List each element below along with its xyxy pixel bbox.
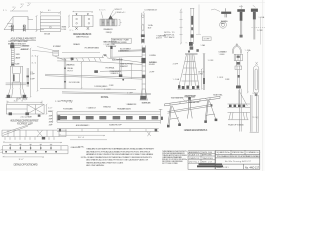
T-bolt 2 dark head [251, 9, 258, 12]
securing block studs [76, 13, 89, 15]
second member dark shank [191, 16, 193, 25]
svg-text:DRAWN R.S.: DRAWN R.S. [189, 157, 200, 160]
second bolt member [190, 8, 194, 44]
trestle top bar (perspective) [165, 96, 221, 106]
svg-text:& NUT: & NUT [156, 38, 163, 40]
center column dark main [141, 58, 145, 63]
jack collar [235, 66, 242, 69]
svg-text:APPARATUS TO BE CONSTRUCTED FR: APPARATUS TO BE CONSTRUCTED FROM STANDAR… [86, 153, 154, 156]
svg-text:GUIDE: GUIDE [15, 64, 21, 66]
vertical dim mid beam [81, 62, 83, 89]
svg-text:1 OFF REQUIRED: 1 OFF REQUIRED [94, 86, 107, 88]
left stand narrow column [11, 48, 14, 66]
svg-text:ARM REST SUPP: ARM REST SUPP [21, 48, 30, 51]
svg-text:5/8 DIA: 5/8 DIA [44, 33, 51, 36]
left stand legs [8, 88, 26, 98]
right frame verticals [250, 95, 259, 132]
bench top dimension [7, 101, 42, 104]
slot plate bottom tab [255, 93, 257, 96]
svg-text:TITLE DISABLED PERSONS TOILET: TITLE DISABLED PERSONS TOILET APPARATUS … [217, 155, 261, 158]
right stand legs [178, 54, 201, 89]
right pillar legs [228, 112, 249, 119]
right stand top knob dark [189, 42, 193, 46]
T-bolt 1 dark stem [240, 12, 243, 21]
svg-text:LOCKING BOLT: LOCKING BOLT [145, 10, 158, 12]
trapezoid inner lines [7, 24, 14, 27]
floor rail line [40, 88, 136, 91]
svg-text:3-0: 3-0 [32, 63, 37, 65]
svg-text:ADJUSTABLE ARM REST: ADJUSTABLE ARM REST [11, 38, 37, 41]
jack dimension line [247, 51, 249, 93]
foot board dark dashed band [59, 116, 158, 119]
svg-text:1 OFF: 1 OFF [225, 79, 230, 81]
svg-text:FOOTREST 1 OFF: FOOTREST 1 OFF [17, 123, 34, 125]
pedal arm vertical post [64, 59, 66, 89]
svg-text:4-6: 4-6 [32, 56, 37, 58]
title block right outer box [216, 150, 260, 169]
svg-text:9'-0": 9'-0" [19, 159, 24, 161]
svg-text:No. 44/D 217: No. 44/D 217 [245, 167, 260, 170]
locking bolt member [142, 13, 145, 44]
box for note top middle [111, 38, 131, 43]
pedal securing block plan view [73, 15, 94, 26]
jack rod [238, 70, 240, 86]
jack dome [232, 46, 241, 54]
svg-text:FLOOR LINE: FLOOR LINE [69, 82, 81, 84]
center column feet dark [140, 96, 146, 100]
securing block top dimension [73, 11, 94, 13]
right stand feet darks [178, 85, 199, 89]
svg-text:SLOT: SLOT [148, 28, 153, 30]
T-bolt 1 foot [240, 35, 243, 38]
svg-text:SLIDING FIT 2 OFF: SLIDING FIT 2 OFF [109, 125, 123, 127]
center column dark mid [142, 75, 146, 79]
svg-text:PEDAL BAR GUIDES: PEDAL BAR GUIDES [117, 108, 132, 111]
svg-text:BAR: BAR [221, 22, 225, 25]
pillar column below jack [240, 89, 242, 132]
short rails entering column [100, 50, 142, 72]
left stand side post dark marks [26, 76, 29, 85]
svg-text:2 OFF: 2 OFF [30, 78, 36, 80]
arm rest bolt right [23, 25, 25, 32]
trestle middle support [187, 108, 192, 118]
beam side bolt dots [5, 147, 57, 153]
pedal block right bracket [119, 20, 122, 26]
svg-text:APPROVED: APPROVED [202, 154, 213, 157]
svg-text:SEAT RAIL: SEAT RAIL [213, 93, 224, 96]
svg-text:SPIGOT: SPIGOT [114, 9, 122, 11]
svg-text:SEAT PILLAR: SEAT PILLAR [185, 94, 196, 97]
bench right dimension [39, 104, 48, 117]
svg-text:CRANK ROD: CRANK ROD [66, 64, 75, 67]
svg-text:¾ DIA: ¾ DIA [245, 49, 252, 52]
trestle text leaders [183, 99, 209, 103]
svg-text:1'-0": 1'-0" [48, 108, 53, 110]
second drop link [131, 64, 133, 79]
svg-text:AND ONE VARNISH: AND ONE VARNISH [86, 164, 104, 167]
T-bolt 2 rod [254, 19, 255, 39]
second member dimension line [180, 9, 183, 45]
pedal drop link [120, 58, 121, 76]
arm rest vertical dimension [36, 15, 38, 32]
faint divider vertical [196, 5, 201, 35]
svg-text:SCALE 1:8: SCALE 1:8 [189, 154, 199, 157]
svg-text:SHEET 1 OF 1: SHEET 1 OF 1 [217, 167, 229, 169]
svg-text:ADJUSTER BAR 1¼: ADJUSTER BAR 1¼ [76, 124, 90, 127]
svg-text:PEDAL BLOCK: PEDAL BLOCK [104, 28, 114, 31]
svg-text:BRACKET: BRACKET [120, 65, 129, 68]
left stand feet line [5, 97, 28, 99]
svg-text:3 OFF: 3 OFF [204, 39, 211, 41]
pedal drop link foot dark [119, 74, 122, 77]
small dark marks left margin [196, 49, 198, 52]
svg-text:3'-6": 3'-6" [14, 101, 19, 103]
left stand wide section [10, 66, 22, 88]
svg-text:2 REQD: 2 REQD [106, 32, 113, 34]
trestle seat pillar [188, 100, 190, 109]
svg-text:ADJUSTER BAR: ADJUSTER BAR [112, 58, 123, 61]
pedal block end view [100, 19, 117, 26]
locking handle shaft [111, 49, 112, 58]
arm rest end view top dimension [40, 11, 60, 15]
second member dark nut [191, 27, 193, 30]
svg-text:¾ ROD: ¾ ROD [15, 53, 20, 56]
svg-text:1 OFF: 1 OFF [257, 30, 263, 32]
svg-text:FOOT BOARD: FOOT BOARD [63, 108, 73, 111]
T-bolt 1 dark head [237, 9, 245, 12]
svg-text:1 OFF: 1 OFF [127, 92, 134, 94]
svg-text:LEVER: LEVER [149, 64, 155, 66]
foot board plan band [2, 130, 66, 137]
adjuster dim line [59, 134, 105, 136]
bench rectangle [6, 105, 44, 115]
svg-text:TRACED M.B.: TRACED M.B. [202, 157, 213, 160]
pedal pivot hump [102, 54, 107, 57]
arm rest caption underline [11, 39, 37, 41]
right stand small tick [188, 51, 190, 53]
bench foot dark left [9, 112, 12, 115]
adjuster bar end dots dark [59, 129, 61, 132]
svg-text:SEAT: SEAT [48, 110, 53, 113]
svg-text:UNIT No 4: UNIT No 4 [189, 161, 199, 163]
pedal arm leaders [32, 47, 53, 53]
svg-text:DATE 1944: DATE 1944 [202, 151, 212, 154]
svg-text:ADJUSTABLE CENTRE SEAT REST: ADJUSTABLE CENTRE SEAT REST [10, 120, 39, 123]
svg-text:2 OFF: 2 OFF [49, 125, 54, 127]
svg-text:¾ DIA BAR 2 OFF: ¾ DIA BAR 2 OFF [126, 103, 138, 106]
svg-text:1 OFF: 1 OFF [208, 60, 215, 62]
jack dome top knob [236, 43, 238, 45]
svg-text:3¼: 3¼ [21, 3, 25, 6]
dark blob below beam [94, 70, 98, 73]
svg-text:NOT TO BE COPIED: NOT TO BE COPIED [162, 163, 179, 165]
svg-text:¾ DIA: ¾ DIA [173, 78, 180, 81]
svg-text:1 OFF: 1 OFF [217, 77, 224, 79]
pedal arm head bracket [53, 50, 65, 60]
dashed line right [252, 27, 266, 29]
left stand cross bars [6, 83, 27, 85]
svg-text:4 OFF: 4 OFF [49, 122, 54, 124]
svg-text:2 OFF: 2 OFF [252, 93, 258, 95]
beam side view [3, 144, 68, 154]
foot board side assembly top lines [57, 112, 161, 122]
pedal arm horizontal member [57, 58, 104, 62]
locking bolt dark foot [141, 39, 144, 43]
box around 3 OFF note [202, 37, 211, 41]
trestle rear plank [168, 104, 212, 113]
right stand top bar [185, 53, 198, 56]
dark blob on beam left [71, 58, 74, 61]
svg-text:PLAN OF STAND: PLAN OF STAND [228, 124, 244, 127]
title block middle dark row [199, 163, 223, 165]
jack rod dark band [237, 75, 239, 78]
jack foot dark [236, 86, 241, 89]
locking handle knob dark [110, 46, 112, 49]
locking bolt dark collar [141, 34, 145, 37]
left stand inner dark cell [13, 75, 15, 82]
svg-text:DETAILS OF FOOT BOARD: DETAILS OF FOOT BOARD [14, 163, 38, 166]
svg-text:NOTE:-: NOTE:- [78, 147, 84, 149]
title block left distribution text [162, 150, 188, 165]
svg-text:STANDARD TOILET SEAT FITTED TO: STANDARD TOILET SEAT FITTED TO APPARATUS… [86, 148, 155, 151]
locking bolt leader [143, 11, 144, 13]
middle rail lines [45, 74, 142, 79]
beam sloping lines [94, 58, 142, 65]
svg-text:SEAT PILLAR: SEAT PILLAR [142, 101, 151, 104]
svg-text:2 OFF: 2 OFF [173, 64, 179, 66]
second member dark foot [191, 34, 194, 37]
slot plate top ticks [255, 62, 257, 65]
svg-text:GENERAL VIEW OF APPARATUS: GENERAL VIEW OF APPARATUS [184, 129, 208, 132]
adjuster bar ticks [66, 129, 146, 132]
svg-text:COMMAND H.Q.: COMMAND H.Q. [246, 151, 261, 154]
svg-text:PIVOT: PIVOT [67, 71, 74, 73]
small dimension left of jack [201, 68, 203, 89]
notes paragraph [78, 147, 155, 167]
beam plan dimension [3, 140, 107, 143]
securing bar leader squiggle [211, 9, 220, 12]
svg-text:NOTE:- OF EASY DISMANTLING FOR: NOTE:- OF EASY DISMANTLING FOR TRANSIT. … [81, 156, 153, 159]
foot board right end dark dot [161, 117, 163, 120]
svg-text:FRONT EL: FRONT EL [101, 97, 110, 99]
jack neck [237, 61, 241, 66]
svg-text:2'-6: 2'-6 [66, 102, 73, 104]
leader line over beam [62, 52, 100, 54]
top right securing bar dark [221, 12, 231, 14]
arm rest dimension arrows top [10, 5, 30, 12]
svg-text:SQUADRON No.: SQUADRON No. [217, 151, 231, 154]
left stand side post [27, 68, 28, 87]
left stand clamp head dark [10, 43, 20, 66]
dark blob right of bench [38, 115, 41, 117]
svg-text:PEDAL CR: PEDAL CR [73, 43, 80, 46]
thin rod left of jack [203, 54, 205, 90]
title block middle boxes [188, 151, 215, 170]
svg-text:FOOT REST POSITION: FOOT REST POSITION [85, 47, 100, 49]
svg-text:SEAT RAIL 2 OFF: SEAT RAIL 2 OFF [189, 101, 201, 104]
trestle seat pillar dark cap [188, 97, 191, 100]
spigot leader lines [101, 10, 116, 19]
T-bolt 1 rod [241, 21, 242, 35]
svg-text:¾ DIA: ¾ DIA [200, 44, 205, 47]
svg-text:AND REACH. FOOT PEDALS ADJUSTA: AND REACH. FOOT PEDALS ADJUSTABLE FOR LE… [86, 150, 151, 153]
svg-text:36'-0: 36'-0 [78, 137, 85, 139]
svg-text:SPACING: SPACING [103, 106, 111, 109]
right pillar bolt dots [229, 105, 245, 107]
beam hatch ticks [64, 58, 101, 62]
diagonal mark right of beam plan [147, 132, 151, 137]
adjustable arm rest side view outline [4, 17, 44, 30]
trestle feet darks [167, 119, 217, 128]
center column dark upper [142, 48, 146, 53]
svg-text:LOCKING: LOCKING [149, 55, 156, 57]
svg-text:2 OFF: 2 OFF [149, 72, 155, 74]
right pillar diagonal [239, 90, 247, 106]
svg-text:ADJUST: ADJUST [16, 56, 22, 59]
arm rest end view rectangle [40, 16, 60, 32]
svg-text:2 OFF: 2 OFF [109, 85, 115, 87]
svg-text:LOCKING HANDLE: LOCKING HANDLE [21, 44, 31, 47]
title block [162, 150, 261, 170]
spigot dark wedge [109, 15, 113, 19]
svg-text:FOOT PEDAL: FOOT PEDAL [106, 67, 116, 70]
svg-text:REF. 217: REF. 217 [202, 161, 212, 163]
svg-text:STATION R.A.F.: STATION R.A.F. [232, 151, 245, 154]
svg-text:CUT BACK: CUT BACK [164, 36, 175, 39]
svg-text:1 OFF: 1 OFF [104, 89, 112, 91]
svg-text:AMENDMENTS: AMENDMENTS [189, 151, 201, 154]
svg-text:TOILET SEAT: TOILET SEAT [106, 45, 118, 48]
wedge diagonals [3, 124, 31, 135]
svg-text:1 OFF: 1 OFF [61, 29, 67, 31]
trestle left legs [168, 106, 180, 126]
thin rod dark segment [203, 78, 205, 84]
lower rail lines [62, 92, 151, 95]
slot plate rounded [254, 66, 259, 93]
svg-text:2-0 x 1-0 SEAT: 2-0 x 1-0 SEAT [20, 116, 32, 119]
svg-text:Air Min Drawing 44/D 217: Air Min Drawing 44/D 217 [224, 160, 252, 163]
svg-text:MAKE FROM 2x2: MAKE FROM 2x2 [76, 35, 90, 38]
svg-text:¾ DIA ROD: ¾ DIA ROD [110, 72, 119, 75]
arm rest bolt left [11, 25, 13, 32]
foot board right end bracket [159, 109, 163, 124]
svg-text:AND SHAKES. ALL BOLTS AND FITT: AND SHAKES. ALL BOLTS AND FITTINGS TO BE… [86, 159, 148, 162]
beam plan dark blob [42, 137, 45, 140]
tiny text annotations [0, 1, 264, 167]
svg-text:ARM REST: ARM REST [120, 50, 130, 53]
T-bolt 1 top ticks [239, 5, 243, 9]
foot board left dim vertical [52, 110, 54, 123]
svg-text:LONG: LONG [198, 74, 203, 76]
securing block left dimension [68, 15, 70, 28]
trestle plank end dark [211, 104, 213, 106]
left stand foot blob right [23, 95, 27, 98]
center column [142, 46, 146, 96]
center column legs [140, 89, 148, 100]
securing block bolt bottoms [75, 27, 89, 30]
beam side dimension [3, 156, 44, 158]
right pillar base lines [228, 104, 251, 112]
T-bolt 2 top tick [253, 5, 256, 7]
left stand foot blob left [7, 95, 11, 98]
faint vertical far right [259, 17, 261, 45]
middle rail dark dot [122, 79, 124, 81]
bench foot dark right [25, 112, 29, 115]
adjuster bar thin lines [57, 129, 159, 132]
bolt tick row under band [5, 137, 54, 140]
trestle right legs [205, 100, 216, 121]
svg-text:TOILET SEAT HERE: TOILET SEAT HERE [171, 97, 185, 100]
svg-text:2 OFF: 2 OFF [49, 116, 54, 118]
right stand knob lower dark [190, 46, 194, 49]
T-bolt 2 dark stem [253, 12, 256, 20]
jack body box [234, 54, 242, 60]
ring under securing bar [220, 21, 227, 28]
pedal area left dimension [30, 48, 39, 98]
svg-text:FOOTREST: FOOTREST [53, 46, 62, 48]
svg-text:1¾: 1¾ [3, 9, 7, 12]
svg-text:2 OFF: 2 OFF [49, 119, 54, 121]
securing bar stem [225, 8, 227, 17]
